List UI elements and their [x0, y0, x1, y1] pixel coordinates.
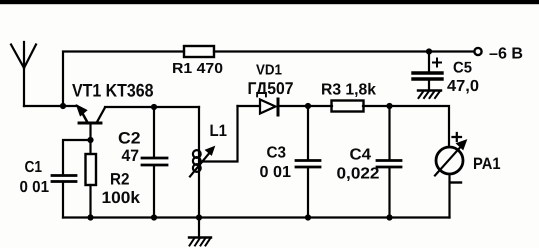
transistor VT1 — [77, 105, 106, 140]
wire base to C1 — [63, 140, 91, 174]
svg-text:R2: R2 — [110, 170, 130, 188]
diode VD1 — [238, 99, 333, 115]
wire R3 to PA1 corner — [363, 106, 449, 146]
node L1 bottom — [196, 214, 202, 220]
capacitor C4 — [377, 106, 401, 218]
wire bottom rail — [63, 216, 450, 218]
node base junction — [87, 137, 93, 143]
node C4 bottom — [386, 214, 392, 220]
wire collector rail — [105, 106, 199, 108]
meter PA1 — [435, 133, 467, 218]
svg-text:R3 1,8k: R3 1,8k — [321, 82, 376, 99]
svg-text:C5: C5 — [453, 60, 472, 77]
inductor L1 — [190, 107, 215, 218]
node C4 top — [386, 103, 392, 109]
node C3 bottom — [305, 214, 311, 220]
capacitor C1 — [52, 176, 76, 218]
antenna WA1 — [11, 42, 36, 106]
base bar — [79, 122, 101, 125]
svg-text:VT1 KT368: VT1 KT368 — [72, 81, 154, 101]
svg-text:ГД507: ГД507 — [248, 79, 294, 98]
capacitor C5 — [413, 52, 442, 91]
capacitor C3 — [296, 106, 320, 218]
svg-text:0,022: 0,022 — [337, 166, 380, 183]
node C2 bottom — [151, 214, 157, 220]
svg-text:100k: 100k — [102, 189, 141, 207]
node R2 bottom — [87, 214, 93, 220]
node C5 top junction — [426, 48, 432, 54]
svg-text:47,0: 47,0 — [447, 78, 479, 95]
wire antenna to emitter — [24, 105, 77, 107]
collector — [97, 108, 105, 123]
svg-text:PA1: PA1 — [473, 155, 501, 173]
top border bar — [0, 0, 539, 4]
svg-text:C2: C2 — [118, 130, 141, 148]
wire top rail left segment — [63, 52, 184, 107]
svg-text:47: 47 — [122, 147, 140, 165]
node emitter/antenna junction — [60, 103, 66, 109]
node C3 top — [305, 103, 311, 109]
svg-text:C1: C1 — [25, 159, 43, 176]
capacitor C2 — [142, 107, 167, 218]
adjust arrow — [190, 151, 211, 177]
ground (L1) — [189, 218, 211, 246]
svg-text:C3: C3 — [267, 145, 287, 162]
svg-text:0 01: 0 01 — [20, 179, 50, 196]
svg-text:–6 В: –6 В — [489, 46, 523, 63]
svg-text:VD1: VD1 — [256, 63, 282, 79]
resistor R1 — [184, 46, 214, 57]
wire L1 tap to VD1 — [200, 106, 238, 162]
svg-text:L1: L1 — [210, 122, 228, 140]
node C2 top — [151, 104, 157, 110]
svg-text:0 01: 0 01 — [260, 164, 292, 181]
base lead — [89, 125, 91, 141]
terminal -6 B — [474, 48, 481, 55]
svg-text:R1 470: R1 470 — [172, 61, 223, 77]
resistor R2 — [86, 140, 97, 218]
ground (C5) — [418, 91, 441, 99]
resistor R3 — [332, 101, 364, 112]
emitter with arrow — [80, 108, 88, 122]
wire top rail right segment — [214, 50, 474, 52]
svg-text:C4: C4 — [350, 147, 372, 164]
